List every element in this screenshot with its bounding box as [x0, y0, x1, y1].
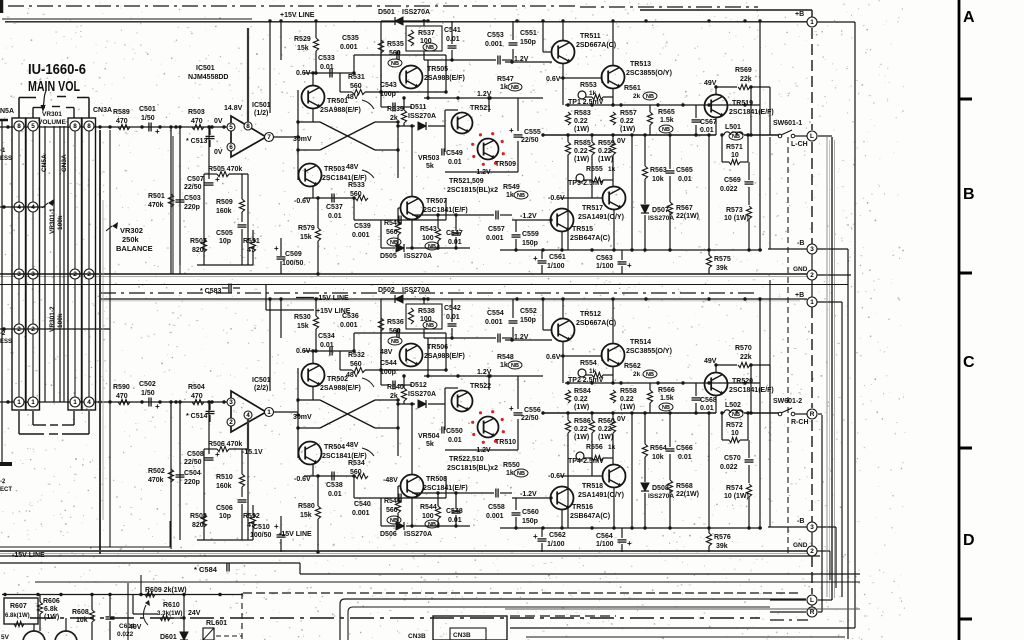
svg-text:2SC1815(BL)x2: 2SC1815(BL)x2: [447, 187, 498, 194]
svg-text:0.22: 0.22: [620, 118, 634, 125]
svg-text:TR519: TR519: [732, 100, 753, 107]
svg-text:39k: 39k: [716, 265, 728, 272]
svg-text:C537: C537: [326, 204, 343, 211]
svg-text:5k: 5k: [426, 163, 434, 170]
svg-text:-15.1V: -15.1V: [242, 449, 263, 456]
svg-text:TR507: TR507: [426, 198, 447, 205]
svg-text:R534: R534: [348, 460, 365, 467]
svg-text:1/100: 1/100: [596, 541, 614, 548]
svg-text:0.022: 0.022: [117, 631, 134, 638]
svg-text:2SC1841(E/F): 2SC1841(E/F): [322, 175, 367, 182]
svg-text:R548: R548: [497, 354, 514, 361]
svg-text:0.6V: 0.6V: [546, 76, 561, 83]
svg-text:24V: 24V: [188, 610, 201, 617]
svg-text:4: 4: [31, 204, 35, 211]
svg-text:CN3A: CN3A: [61, 154, 68, 172]
svg-text:+: +: [533, 254, 538, 263]
svg-text:D507: D507: [652, 207, 669, 214]
svg-text:R571: R571: [726, 144, 743, 151]
svg-text:R575: R575: [714, 256, 731, 263]
svg-text:1k: 1k: [608, 166, 616, 173]
svg-text:VOLUME: VOLUME: [38, 119, 66, 126]
svg-text:(1W): (1W): [44, 614, 59, 621]
svg-text:10k: 10k: [76, 617, 88, 624]
svg-text:D512: D512: [410, 382, 427, 389]
svg-text:R576: R576: [714, 534, 731, 541]
svg-text:L-CH: L-CH: [791, 141, 808, 148]
svg-text:0.001: 0.001: [485, 319, 503, 326]
svg-text:1/100: 1/100: [596, 263, 614, 270]
svg-text:0.001: 0.001: [352, 510, 370, 517]
svg-text:TR514: TR514: [630, 339, 651, 346]
svg-text:0.01: 0.01: [446, 314, 460, 321]
svg-text:R586: R586: [574, 418, 591, 425]
svg-text:C563: C563: [596, 255, 613, 262]
svg-text:VR504: VR504: [418, 433, 440, 440]
svg-text:IC501: IC501: [252, 102, 271, 109]
svg-text:100/50: 100/50: [282, 260, 304, 267]
svg-text:10p: 10p: [219, 513, 231, 520]
svg-text:R570: R570: [735, 345, 752, 352]
svg-text:3: 3: [810, 524, 814, 531]
svg-text:D506: D506: [380, 531, 397, 538]
svg-text:D508: D508: [652, 485, 669, 492]
svg-text:22/50: 22/50: [521, 415, 539, 422]
svg-text:R606: R606: [43, 598, 60, 605]
svg-text:-0.6V: -0.6V: [294, 198, 311, 205]
svg-text:2SD667A(C): 2SD667A(C): [576, 42, 616, 49]
svg-text:0.01: 0.01: [448, 239, 462, 246]
svg-text:470k: 470k: [148, 202, 164, 209]
svg-text:1: 1: [31, 399, 35, 406]
svg-text:B: B: [963, 186, 975, 203]
svg-text:TR509: TR509: [495, 161, 516, 168]
svg-text:L502: L502: [725, 402, 741, 409]
svg-text:1k: 1k: [500, 362, 508, 369]
svg-text:-B: -B: [797, 518, 804, 525]
svg-text:R555: R555: [586, 166, 603, 173]
svg-text:R568: R568: [676, 483, 693, 490]
svg-text:49V: 49V: [129, 624, 142, 631]
svg-text:+: +: [155, 402, 160, 411]
svg-text:2: 2: [810, 548, 814, 555]
svg-text:15k: 15k: [300, 512, 312, 519]
svg-text:1k: 1k: [506, 470, 514, 477]
svg-text:R573: R573: [726, 207, 743, 214]
svg-text:R543: R543: [420, 226, 437, 233]
svg-text:TR521: TR521: [470, 105, 491, 112]
svg-text:R535: R535: [387, 41, 404, 48]
svg-text:0.6V: 0.6V: [546, 354, 561, 361]
svg-text:220p: 220p: [184, 204, 200, 211]
svg-text:10k: 10k: [652, 176, 664, 183]
svg-text:TR522,510: TR522,510: [449, 456, 484, 463]
svg-text:CN3B: CN3B: [453, 632, 471, 639]
svg-text:C559: C559: [522, 231, 539, 238]
svg-text:R503: R503: [188, 109, 205, 116]
svg-text:C562: C562: [549, 532, 566, 539]
svg-text:5: 5: [31, 123, 35, 130]
svg-text:48V: 48V: [346, 164, 359, 171]
svg-text:+: +: [627, 539, 632, 548]
svg-text:C544: C544: [380, 360, 397, 367]
svg-text:160k: 160k: [216, 208, 232, 215]
svg-text:ISS270A: ISS270A: [404, 531, 432, 538]
svg-text:NB: NB: [511, 363, 519, 369]
svg-text:C: C: [963, 354, 975, 371]
svg-text:48V: 48V: [346, 442, 359, 449]
svg-text:0.022: 0.022: [720, 464, 738, 471]
svg-text:TR503: TR503: [324, 166, 345, 173]
svg-text:R532: R532: [348, 352, 365, 359]
svg-text:TR511: TR511: [580, 33, 601, 40]
svg-text:2SC3855(O/Y): 2SC3855(O/Y): [626, 70, 672, 77]
svg-text:CN3A: CN3A: [93, 107, 112, 114]
svg-text:R506 470k: R506 470k: [208, 441, 242, 448]
svg-text:L: L: [810, 133, 814, 140]
svg-text:C507: C507: [187, 176, 204, 183]
svg-text:3: 3: [810, 246, 814, 253]
svg-text:0.01: 0.01: [700, 127, 714, 134]
svg-text:560: 560: [389, 328, 401, 335]
svg-text:(1W): (1W): [620, 126, 635, 133]
svg-text:0.001: 0.001: [486, 235, 504, 242]
svg-text:+: +: [509, 404, 514, 413]
svg-text:R539: R539: [387, 106, 404, 113]
svg-text:-2: -2: [0, 331, 6, 337]
svg-text:+: +: [509, 126, 514, 135]
svg-text:5k: 5k: [426, 441, 434, 448]
svg-text:2SA988(E/F): 2SA988(E/F): [320, 385, 361, 392]
svg-text:R561: R561: [624, 85, 641, 92]
svg-text:TR513: TR513: [630, 61, 651, 68]
svg-text:48V: 48V: [346, 372, 359, 379]
svg-text:4: 4: [17, 204, 21, 211]
svg-text:IU-1660-6: IU-1660-6: [28, 61, 86, 78]
svg-text:IC501: IC501: [196, 65, 215, 72]
svg-text:0.22: 0.22: [574, 148, 588, 155]
svg-text:C502: C502: [139, 381, 156, 388]
svg-text:BALANCE: BALANCE: [116, 244, 153, 253]
svg-text:NB: NB: [517, 193, 525, 199]
svg-text:R558: R558: [620, 388, 637, 395]
svg-text:6.8k: 6.8k: [44, 606, 58, 613]
svg-text:C510: C510: [253, 524, 270, 531]
svg-text:C501: C501: [139, 106, 156, 113]
svg-text:0.001: 0.001: [486, 513, 504, 520]
svg-text:C568: C568: [700, 397, 717, 404]
svg-text:VR301-1: VR301-1: [49, 208, 56, 234]
svg-text:R510: R510: [216, 474, 233, 481]
svg-text:R502: R502: [148, 468, 165, 475]
svg-text:560: 560: [350, 361, 362, 368]
svg-text:(1W): (1W): [598, 434, 613, 441]
svg-text:150p: 150p: [520, 317, 536, 324]
svg-text:R557: R557: [620, 110, 637, 117]
svg-text:R536: R536: [387, 319, 404, 326]
svg-text:TR512: TR512: [580, 311, 601, 318]
svg-text:100: 100: [422, 235, 434, 242]
svg-text:15k: 15k: [297, 45, 309, 52]
svg-text:R509: R509: [216, 199, 233, 206]
svg-text:C555: C555: [524, 129, 541, 136]
svg-text:8: 8: [73, 123, 77, 130]
svg-text:0.01: 0.01: [448, 517, 462, 524]
svg-text:C535: C535: [342, 35, 359, 42]
svg-text:NB: NB: [426, 323, 434, 329]
svg-text:R507: R507: [190, 238, 207, 245]
svg-text:* C584: * C584: [194, 565, 218, 574]
svg-text:2: 2: [810, 272, 814, 279]
svg-text:0V: 0V: [214, 118, 223, 125]
svg-text:* C514: * C514: [186, 413, 208, 420]
svg-text:VR302: VR302: [120, 226, 143, 235]
svg-text:0.001: 0.001: [340, 322, 358, 329]
svg-text:GND: GND: [793, 266, 808, 273]
svg-text:R501: R501: [148, 193, 165, 200]
svg-text:TR502: TR502: [327, 376, 348, 383]
svg-text:2SA1491(O/Y): 2SA1491(O/Y): [578, 492, 624, 499]
svg-text:R566: R566: [658, 387, 675, 394]
svg-text:C551: C551: [520, 30, 537, 37]
svg-text:0.022: 0.022: [720, 186, 738, 193]
svg-text:CN5A: CN5A: [41, 154, 48, 172]
svg-text:C534: C534: [318, 333, 335, 340]
svg-text:820: 820: [192, 247, 204, 254]
svg-text:R590: R590: [113, 384, 130, 391]
svg-text:TP4-2.5mV: TP4-2.5mV: [568, 458, 604, 465]
svg-text:TR515: TR515: [572, 226, 593, 233]
svg-text:(1W): (1W): [620, 404, 635, 411]
svg-text:R: R: [810, 411, 815, 418]
svg-text:C540: C540: [354, 501, 371, 508]
svg-text:ISS270A: ISS270A: [648, 215, 674, 222]
svg-text:R607: R607: [10, 603, 27, 610]
svg-text:R533: R533: [348, 182, 365, 189]
svg-text:TR520: TR520: [732, 378, 753, 385]
svg-text:R544: R544: [420, 504, 437, 511]
svg-text:2SA988(E/F): 2SA988(E/F): [320, 107, 361, 114]
svg-text:TR521,509: TR521,509: [449, 178, 484, 185]
svg-text:+: +: [274, 244, 279, 253]
svg-text:R530: R530: [294, 314, 311, 321]
svg-text:NB: NB: [428, 522, 436, 528]
svg-text:(1W): (1W): [574, 156, 589, 163]
svg-text:470k: 470k: [148, 477, 164, 484]
svg-text:100k: 100k: [57, 215, 64, 230]
svg-text:R547: R547: [497, 76, 514, 83]
svg-text:22/50: 22/50: [184, 459, 202, 466]
svg-text:R592: R592: [243, 513, 260, 520]
svg-text:-1.2V: -1.2V: [474, 169, 491, 176]
svg-text:TR518: TR518: [582, 483, 603, 490]
svg-text:10: 10: [731, 152, 739, 159]
svg-text:TP3-2.5mV: TP3-2.5mV: [568, 180, 604, 187]
svg-text:N5A: N5A: [0, 108, 14, 115]
svg-text:R591: R591: [243, 238, 260, 245]
svg-text:2SA988(E/F): 2SA988(E/F): [424, 353, 465, 360]
svg-text:10p: 10p: [219, 238, 231, 245]
svg-text:R569: R569: [735, 67, 752, 74]
svg-text:2k: 2k: [633, 371, 641, 378]
svg-text:1: 1: [17, 399, 21, 406]
svg-text:ISS270A: ISS270A: [408, 113, 436, 120]
svg-text:IC501: IC501: [252, 377, 271, 384]
svg-text:NB: NB: [517, 471, 525, 477]
svg-text:C569: C569: [724, 177, 741, 184]
svg-text:820: 820: [192, 522, 204, 529]
svg-text:RL601: RL601: [206, 620, 227, 627]
svg-text:C554: C554: [487, 310, 504, 317]
svg-text:C533: C533: [318, 55, 335, 62]
svg-text:1k: 1k: [608, 444, 616, 451]
svg-text:R549: R549: [503, 184, 520, 191]
svg-text:1: 1: [810, 299, 814, 306]
svg-text:22(1W): 22(1W): [676, 213, 699, 220]
svg-text:R540: R540: [387, 384, 404, 391]
svg-text:2k: 2k: [390, 393, 398, 400]
svg-text:NB: NB: [646, 372, 654, 378]
svg-text:5: 5: [229, 124, 233, 131]
svg-text:220p: 220p: [184, 479, 200, 486]
svg-text:0.01: 0.01: [448, 437, 462, 444]
svg-text:C558: C558: [488, 504, 505, 511]
svg-text:100/50: 100/50: [250, 532, 272, 539]
svg-text:0.001: 0.001: [485, 41, 503, 48]
svg-text:R529: R529: [294, 36, 311, 43]
svg-text:1/100: 1/100: [547, 541, 565, 548]
svg-text:D601: D601: [160, 634, 177, 640]
svg-text:C557: C557: [488, 226, 505, 233]
svg-text:R589: R589: [113, 109, 130, 116]
svg-text:R553: R553: [580, 82, 597, 89]
svg-text:3: 3: [229, 399, 233, 406]
svg-text:TR522: TR522: [470, 383, 491, 390]
svg-text:C552: C552: [520, 308, 537, 315]
svg-text:TR510: TR510: [495, 439, 516, 446]
svg-text:C549: C549: [446, 150, 463, 157]
svg-text:R554: R554: [580, 360, 597, 367]
svg-text:0.01: 0.01: [328, 213, 342, 220]
svg-text:ISS270A: ISS270A: [408, 391, 436, 398]
svg-text:+B: +B: [795, 292, 804, 299]
svg-text:A: A: [963, 9, 975, 26]
svg-text:R579: R579: [298, 225, 315, 232]
svg-text:ISS270A: ISS270A: [402, 9, 430, 16]
svg-text:C504: C504: [184, 470, 201, 477]
svg-text:4: 4: [246, 412, 250, 419]
svg-text:(1/2): (1/2): [254, 110, 268, 117]
svg-text:22(1W): 22(1W): [676, 491, 699, 498]
svg-text:-2: -2: [0, 479, 6, 485]
svg-text:R556: R556: [586, 444, 603, 451]
svg-text:C566: C566: [676, 445, 693, 452]
svg-text:-1.2V: -1.2V: [520, 213, 537, 220]
svg-text:C506: C506: [216, 505, 233, 512]
svg-text:6: 6: [229, 144, 233, 151]
svg-text:VR301-2: VR301-2: [49, 306, 56, 332]
svg-text:2SB647A(C): 2SB647A(C): [570, 513, 610, 520]
svg-text:-1: -1: [0, 148, 6, 154]
svg-text:2k: 2k: [633, 93, 641, 100]
svg-text:2: 2: [17, 326, 21, 333]
svg-text:250k: 250k: [122, 235, 140, 244]
svg-text:100k: 100k: [57, 313, 64, 328]
svg-text:2SC1815(BL)x2: 2SC1815(BL)x2: [447, 465, 498, 472]
svg-text:(1W): (1W): [574, 404, 589, 411]
svg-text:C505: C505: [216, 230, 233, 237]
svg-text:R608: R608: [72, 609, 89, 616]
svg-text:10k: 10k: [652, 454, 664, 461]
svg-text:NJM4558DD: NJM4558DD: [188, 74, 228, 81]
svg-text:0.01: 0.01: [448, 159, 462, 166]
svg-text:MAIN VOL: MAIN VOL: [28, 78, 80, 95]
svg-text:R584: R584: [574, 388, 591, 395]
svg-text:C539: C539: [354, 223, 371, 230]
svg-text:3.3k(1W): 3.3k(1W): [157, 610, 182, 617]
svg-text:ECT: ECT: [0, 487, 12, 493]
svg-text:2SC1841(E/F): 2SC1841(E/F): [423, 485, 468, 492]
svg-text:100: 100: [422, 513, 434, 520]
svg-text:R504: R504: [188, 384, 205, 391]
svg-text:14.8V: 14.8V: [224, 105, 243, 112]
svg-text:L501: L501: [725, 124, 741, 131]
svg-text:30mV: 30mV: [293, 414, 312, 421]
svg-text:R574: R574: [726, 485, 743, 492]
svg-text:R572: R572: [726, 422, 743, 429]
svg-text:C564: C564: [596, 533, 613, 540]
svg-text:C503: C503: [184, 195, 201, 202]
svg-text:1.5k: 1.5k: [660, 395, 674, 402]
svg-text:+: +: [627, 261, 632, 270]
svg-text:C509: C509: [285, 251, 302, 258]
svg-text:(1W): (1W): [598, 156, 613, 163]
svg-text:47: 47: [247, 247, 255, 254]
svg-text:0.01: 0.01: [328, 491, 342, 498]
svg-text:R585: R585: [574, 140, 591, 147]
svg-text:(1W): (1W): [574, 434, 589, 441]
svg-text:R564: R564: [650, 445, 667, 452]
svg-text:C543: C543: [380, 82, 397, 89]
svg-text:-B: -B: [797, 240, 804, 247]
svg-text:C570: C570: [724, 455, 741, 462]
svg-text:R580: R580: [298, 503, 315, 510]
svg-text:-48V: -48V: [383, 477, 398, 484]
svg-text:R505 470k: R505 470k: [208, 166, 242, 173]
svg-text:R562: R562: [624, 363, 641, 370]
svg-text:0.22: 0.22: [574, 396, 588, 403]
svg-text:2SD667A(C): 2SD667A(C): [576, 320, 616, 327]
svg-text:470: 470: [191, 118, 203, 125]
svg-text:-1.2V: -1.2V: [520, 491, 537, 498]
svg-text:1/100: 1/100: [547, 263, 565, 270]
svg-text:C560: C560: [522, 509, 539, 516]
svg-text:0V: 0V: [214, 149, 223, 156]
svg-text:R537: R537: [418, 30, 435, 37]
svg-text:10 (1W): 10 (1W): [724, 215, 749, 222]
svg-text:2SA988(E/F): 2SA988(E/F): [424, 75, 465, 82]
svg-text:C508: C508: [187, 451, 204, 458]
svg-text:0.01: 0.01: [678, 454, 692, 461]
svg-text:6.8k(1W): 6.8k(1W): [5, 613, 30, 619]
svg-text:150p: 150p: [522, 240, 538, 247]
svg-text:CN3B: CN3B: [408, 633, 426, 640]
svg-text:1/50: 1/50: [141, 115, 155, 122]
svg-text:0.22: 0.22: [574, 426, 588, 433]
svg-text:1.5k: 1.5k: [660, 117, 674, 124]
svg-text:10: 10: [731, 430, 739, 437]
svg-text:TR506: TR506: [427, 344, 448, 351]
